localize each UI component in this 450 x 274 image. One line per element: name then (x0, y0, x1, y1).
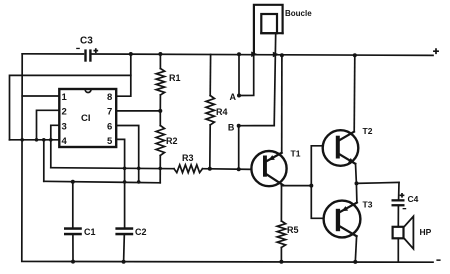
svg-text:C1: C1 (84, 227, 96, 237)
svg-text:R5: R5 (287, 225, 299, 235)
svg-text:A: A (230, 92, 237, 102)
svg-text:4: 4 (62, 136, 68, 147)
svg-text:R1: R1 (169, 73, 181, 83)
svg-text:T1: T1 (291, 149, 301, 159)
svg-text:5: 5 (107, 136, 113, 147)
svg-text:6: 6 (107, 121, 112, 132)
svg-text:3: 3 (62, 121, 67, 132)
svg-text:R4: R4 (216, 107, 228, 117)
svg-text:8: 8 (107, 92, 112, 103)
svg-text:Boucle: Boucle (285, 9, 312, 18)
svg-text:1: 1 (62, 92, 68, 103)
svg-text:7: 7 (107, 107, 112, 118)
svg-text:CI: CI (81, 113, 91, 124)
svg-text:B: B (228, 123, 235, 133)
svg-text:C2: C2 (135, 227, 147, 237)
svg-text:R3: R3 (182, 153, 194, 163)
svg-text:T2: T2 (363, 126, 373, 136)
svg-text:C3: C3 (80, 36, 93, 47)
svg-text:HP: HP (420, 227, 432, 237)
svg-text:R2: R2 (166, 136, 178, 146)
svg-text:T3: T3 (363, 199, 373, 209)
svg-text:2: 2 (62, 107, 67, 118)
svg-text:C4: C4 (408, 194, 419, 204)
